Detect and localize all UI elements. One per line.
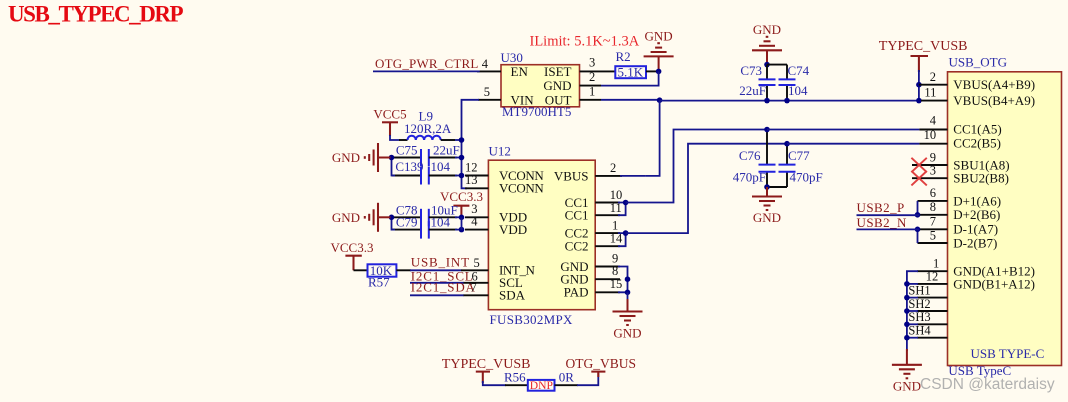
R56 left lead [505, 384, 528, 386]
svg-text:5.1K: 5.1K [618, 65, 644, 80]
U12 pin 6 stub [464, 282, 489, 284]
wire tie pins 6-8 [917, 201, 919, 215]
svg-text:120R,2A: 120R,2A [404, 121, 452, 136]
junction C76/C77 bottom [764, 184, 770, 190]
U12 pin 1 stub [595, 232, 620, 234]
junction rail SH4 [904, 335, 910, 341]
svg-text:ILimit: 5.1K~1.3A: ILimit: 5.1K~1.3A [530, 34, 640, 50]
svg-text:SBU2(B8): SBU2(B8) [953, 171, 1009, 186]
U12 pin 5 stub [461, 269, 488, 271]
ground symbol below rail [892, 349, 922, 378]
svg-text:USB_OTG: USB_OTG [949, 55, 1008, 70]
wire CC1 to top rail [626, 130, 767, 203]
wire C78/C79 left rail [392, 217, 396, 229]
wire VCC5 to L9 [390, 135, 400, 140]
svg-text:VCC5: VCC5 [373, 107, 406, 122]
svg-text:1: 1 [612, 219, 618, 233]
junction pin 2 [916, 82, 922, 88]
svg-text:SDA: SDA [499, 288, 526, 303]
capacitor C78 left lead [392, 216, 422, 218]
wire VDD rail vertical [461, 217, 463, 229]
svg-text:7: 7 [471, 280, 477, 294]
power port VCC5 bar [382, 122, 398, 136]
ground symbol left of C75 [365, 143, 391, 172]
wire rail to SH1 [907, 297, 918, 299]
USB_OTG pin SH3 stub [917, 323, 948, 325]
capacitor C77 plates [779, 165, 796, 172]
svg-text:I2C1_SDA: I2C1_SDA [411, 279, 476, 294]
svg-text:2: 2 [589, 70, 595, 84]
svg-text:5: 5 [474, 256, 480, 270]
capacitor C75 plates [421, 149, 429, 167]
svg-text:CC2(B5): CC2(B5) [953, 135, 1001, 150]
capacitor C75 right lead [429, 157, 457, 159]
svg-text:GND(B1+A12): GND(B1+A12) [953, 276, 1035, 291]
svg-text:GND: GND [753, 22, 781, 37]
junction OUT node [657, 97, 663, 103]
U30 pin 2 stub [580, 85, 602, 87]
svg-text:EN: EN [511, 64, 529, 79]
wire CC2 horizontal right [787, 143, 919, 145]
svg-text:8: 8 [612, 264, 618, 278]
svg-text:10: 10 [924, 128, 937, 142]
capacitor C76 plates [759, 165, 776, 172]
svg-text:D+1(A6): D+1(A6) [953, 193, 1001, 208]
svg-text:3: 3 [589, 56, 595, 70]
svg-text:5: 5 [484, 85, 490, 99]
wire TYPEC_VUSB to R56 [483, 381, 506, 385]
inductor L9 right lead [441, 139, 455, 141]
ground symbol below U12 [613, 299, 643, 325]
connector USB_OTG body [948, 72, 1062, 366]
svg-text:U30: U30 [501, 50, 523, 65]
capacitor C77 leads [786, 144, 788, 187]
wire GND tie pins 9-8-15 [618, 267, 628, 293]
svg-text:USB2_P: USB2_P [857, 200, 905, 215]
svg-text:D-2(B7): D-2(B7) [953, 235, 997, 250]
wire GND rail left of connector [907, 271, 918, 351]
junction CC2 [623, 230, 629, 236]
svg-text:ISET: ISET [544, 64, 572, 79]
wire VCC3.3 to R57 [354, 269, 368, 271]
wire CC2 to second rail [626, 144, 787, 233]
wire C73-C74 top tie [767, 64, 787, 66]
svg-text:SH1: SH1 [908, 283, 930, 297]
wire I2C1_SDA to pin 7 [410, 294, 464, 296]
wire USB2_P [857, 214, 920, 216]
junction pin 11 [916, 98, 922, 104]
capacitor C79 left lead [392, 229, 422, 231]
USB_OTG pin SH4 stub [917, 337, 948, 339]
capacitor C74 leads [786, 65, 788, 101]
svg-text:OTG_PWR_CTRL: OTG_PWR_CTRL [375, 56, 479, 71]
svg-text:C77: C77 [788, 148, 810, 163]
svg-text:C73: C73 [740, 63, 762, 78]
op-amp/regulator U30 body [501, 65, 580, 107]
USB_OTG pin 1 stub [917, 270, 948, 272]
wire CC1 horizontal right [767, 129, 919, 131]
IC U12 body [488, 160, 595, 310]
ground symbol below C76/C77 [752, 187, 782, 210]
wire pin2 GND riser [601, 71, 659, 85]
svg-text:USB_INT: USB_INT [411, 255, 470, 270]
capacitor C75 left lead [392, 157, 422, 159]
svg-text:6: 6 [930, 186, 936, 200]
junction R2/GND/pin2 [656, 69, 662, 75]
USB_OTG pin 4 stub [919, 129, 947, 131]
svg-text:SH4: SH4 [908, 324, 931, 338]
svg-text:VBUS: VBUS [554, 168, 589, 183]
svg-text:VCC3.3: VCC3.3 [331, 240, 374, 255]
svg-text:OTG_VBUS: OTG_VBUS [566, 356, 637, 371]
svg-text:GND: GND [332, 210, 360, 225]
wire C79 to rail [455, 229, 462, 231]
junction GND/C78 left [389, 215, 395, 221]
svg-text:R56: R56 [504, 369, 526, 384]
power port TYPEC_VUSB (R56) bar [476, 372, 490, 383]
svg-text:VIN: VIN [511, 92, 535, 107]
USB_OTG pin 12 stub [917, 283, 948, 285]
svg-text:VBUS(B4+A9): VBUS(B4+A9) [953, 93, 1035, 108]
U30 pin 3 stub [580, 70, 616, 72]
USB_OTG pin 7 stub [918, 228, 948, 230]
junction rail SH2 [904, 308, 910, 314]
capacitor C73 leads [766, 65, 768, 101]
wire C75 to rail [455, 157, 462, 159]
inductor L9 left lead [399, 139, 408, 141]
wire L9 to rail [455, 139, 462, 141]
ground symbol left of C78 [365, 203, 391, 232]
USB_OTG pin 9 stub [912, 164, 948, 166]
U30 pin 4 stub [477, 70, 501, 72]
U12 pin 13 stub [465, 187, 488, 189]
svg-text:USB2_N: USB2_N [857, 215, 908, 230]
U12 pin 11 stub [595, 214, 620, 216]
svg-text:U12: U12 [489, 143, 511, 158]
ground symbol above C73/C74 [752, 37, 782, 65]
USB_OTG pin 10 stub [919, 143, 947, 145]
wire R2 to junction [646, 70, 659, 72]
svg-text:470pF: 470pF [733, 170, 766, 185]
svg-text:0R: 0R [559, 369, 575, 384]
USB_OTG pin 11 stub [921, 100, 948, 102]
U30 pin 1 stub [580, 99, 602, 101]
junction pin 7 USB2_N [915, 227, 921, 233]
capacitor C73 plates [759, 79, 776, 85]
svg-text:VCONN: VCONN [499, 181, 544, 196]
svg-text:TYPEC_VUSB: TYPEC_VUSB [879, 39, 968, 54]
capacitor C78 right lead [429, 216, 457, 218]
capacitor C78 plates [421, 209, 429, 227]
svg-text:CSDN @katerdaisy: CSDN @katerdaisy [920, 376, 1055, 393]
svg-text:10: 10 [610, 188, 623, 202]
wire rail to pin 12 [907, 283, 918, 285]
inductor L9 coil [408, 136, 441, 140]
wire R56 to OTG_VBUS [577, 373, 598, 385]
svg-text:104: 104 [788, 83, 808, 98]
junction GND/C73/C74 top [764, 62, 770, 68]
wire USB_INT to pin 5 [410, 269, 462, 271]
wire OUT node [601, 99, 660, 101]
svg-text:CC1(A5): CC1(A5) [953, 121, 1001, 136]
U12 pin 15 stub [595, 291, 620, 293]
junction rail/C78/pin3 [459, 215, 465, 221]
wire VBUS horizontal [660, 100, 919, 102]
svg-text:CC2: CC2 [565, 239, 589, 254]
svg-text:C79: C79 [396, 215, 418, 230]
junction GND/C75 left [389, 155, 395, 161]
svg-text:15: 15 [610, 277, 623, 291]
svg-text:PAD: PAD [564, 285, 589, 300]
svg-text:7: 7 [930, 215, 936, 229]
svg-text:CC1: CC1 [565, 208, 589, 223]
wire C75/C139 left rail [392, 158, 396, 176]
U12 pin 2 stub [595, 175, 622, 177]
USB_OTG pin SH2 stub [917, 310, 948, 312]
junction CC1 [623, 200, 629, 206]
wire rail to SH4 [907, 337, 918, 339]
svg-text:USB_TYPEC_DRP: USB_TYPEC_DRP [8, 2, 184, 27]
svg-text:5: 5 [930, 229, 936, 243]
resistor R2 body [615, 66, 646, 78]
svg-text:DNP: DNP [530, 379, 553, 392]
svg-text:470pF: 470pF [790, 170, 823, 185]
capacitor C79 plates [421, 221, 429, 239]
svg-text:C75: C75 [396, 143, 418, 158]
wire rail to SH3 [907, 323, 918, 325]
USB_OTG pin 2 stub [919, 84, 948, 86]
wire pin2 to VBUS vertical [620, 175, 646, 177]
ground symbol above R2 [644, 43, 674, 70]
svg-text:GND: GND [893, 379, 921, 394]
svg-text:4: 4 [471, 215, 478, 229]
svg-text:4: 4 [930, 114, 937, 128]
svg-text:22uF: 22uF [433, 143, 460, 158]
svg-text:104: 104 [431, 159, 451, 174]
junction rail pin12 [904, 281, 910, 287]
svg-text:OUT: OUT [545, 92, 572, 107]
svg-text:9: 9 [930, 150, 936, 164]
capacitor C76 leads [766, 130, 768, 188]
USB_OTG pin 8 stub [918, 214, 948, 216]
svg-text:C139: C139 [395, 159, 423, 174]
USB_OTG pin 3 stub [912, 177, 948, 179]
capacitor C139 left lead [392, 175, 422, 177]
svg-text:USB TYPE-C: USB TYPE-C [971, 346, 1045, 361]
U12 pin 7 stub [464, 294, 489, 296]
U12 pin 8 stub [595, 278, 620, 280]
wire C78 to rail [455, 216, 462, 218]
power port VCC3.3 bar [453, 206, 469, 218]
svg-text:GND: GND [332, 150, 360, 165]
svg-text:12: 12 [926, 269, 939, 283]
power port OTG_VBUS bar [591, 372, 605, 377]
wire TYPEC_VUSB to pin2/pin11 [918, 70, 920, 101]
svg-text:2: 2 [930, 70, 936, 84]
wire rail to SH2 [907, 310, 918, 312]
power port TYPEC_VUSB bar [911, 56, 929, 72]
wire CC1 tie pins 10-11 [618, 203, 626, 216]
wire pin15 to ground [627, 292, 629, 301]
wire I2C1_SCL to pin 6 [410, 282, 464, 284]
USB_OTG pin SH1 stub [917, 297, 948, 299]
svg-text:3: 3 [930, 164, 936, 178]
svg-text:SH3: SH3 [908, 310, 930, 324]
svg-text:SH2: SH2 [908, 297, 930, 311]
svg-text:8: 8 [930, 200, 936, 214]
resistor R57 body [368, 264, 397, 276]
svg-text:VDD: VDD [499, 222, 527, 237]
junction rail/L9 [459, 137, 465, 143]
no-connect X pin 3 [911, 171, 926, 185]
wire R57 to USB_INT [396, 269, 411, 271]
svg-text:R2: R2 [616, 49, 631, 64]
R56 right lead [555, 384, 579, 386]
svg-text:GND: GND [753, 210, 781, 225]
junction rail SH1 [904, 295, 910, 301]
U12 pin 12 stub [465, 175, 488, 177]
svg-text:22uF: 22uF [739, 83, 766, 98]
USB_OTG pin 6 stub [918, 200, 948, 202]
junction GND pin15 [625, 290, 631, 296]
capacitor C79 right lead [429, 229, 457, 231]
svg-text:11: 11 [924, 86, 936, 100]
capacitor C139 plates [421, 167, 429, 185]
junction C77/CC2 [784, 141, 790, 147]
U12 pin 3 stub [465, 216, 488, 218]
svg-text:104: 104 [431, 215, 451, 230]
capacitor C74 plates [779, 79, 796, 85]
svg-text:FUSB302MPX: FUSB302MPX [490, 312, 574, 327]
junction rail/C79/pin4 [459, 227, 465, 233]
junction C74/VBUS [784, 98, 790, 104]
wire OUT to U12 VBUS vertical [646, 101, 660, 176]
U12 pin 4 stub [465, 229, 488, 231]
junction C73/VBUS [764, 98, 770, 104]
svg-text:GND: GND [543, 78, 571, 93]
svg-text:1: 1 [589, 84, 595, 98]
USB_OTG pin 5 stub [918, 242, 948, 244]
wire rail VIN (vertical) [462, 100, 480, 189]
junction rail SH3 [904, 322, 910, 328]
junction pin 8 USB2_P [915, 212, 921, 218]
U12 pin 9 stub [595, 266, 620, 268]
junction GND pin8 [625, 276, 631, 282]
wire C76-C77 bottom tie [767, 186, 787, 188]
power port VCC3.3 (R57) bar [345, 256, 361, 271]
U12 pin 14 stub [595, 245, 620, 247]
wire C139 to rail [455, 175, 462, 177]
svg-text:C74: C74 [788, 63, 810, 78]
junction rail/C139/pin12 [459, 173, 465, 179]
wire CC2 tie pins 1-14 [618, 233, 626, 246]
resistor R56 body [528, 380, 555, 391]
U12 pin 10 stub [595, 202, 620, 204]
wire tie pins 7-5 [917, 229, 919, 243]
svg-text:GND: GND [613, 325, 641, 340]
junction C76/CC1 [764, 127, 770, 133]
svg-text:VBUS(A4+B9): VBUS(A4+B9) [953, 77, 1035, 92]
svg-text:D+2(B6): D+2(B6) [953, 207, 1000, 222]
wire OTG_PWR_CTRL to pin 4 [373, 70, 480, 72]
svg-text:13: 13 [465, 173, 478, 187]
U30 pin 5 stub [478, 99, 501, 101]
svg-text:GND: GND [645, 28, 673, 43]
svg-text:2: 2 [610, 161, 616, 175]
wire USB2_N [857, 228, 920, 230]
capacitor C139 right lead [429, 175, 457, 177]
svg-text:C76: C76 [739, 148, 761, 163]
no-connect X pin 9 [911, 158, 926, 172]
junction rail/C75 [459, 155, 465, 161]
svg-text:4: 4 [482, 57, 489, 71]
svg-text:R57: R57 [368, 274, 390, 289]
